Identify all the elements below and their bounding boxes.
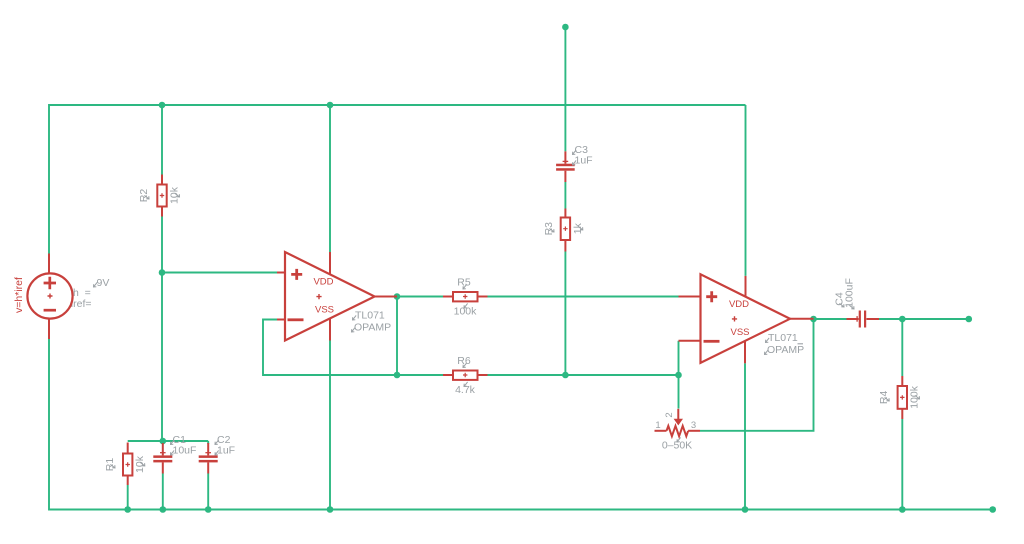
wire U1 output bbox=[397, 296, 443, 298]
wire C2 bottom bbox=[207, 474, 209, 510]
junction C4 / R4 bbox=[899, 316, 906, 323]
node output terminal dot bbox=[966, 316, 973, 323]
svg-text:VDD: VDD bbox=[313, 277, 333, 288]
junction top rail / U1 VDD bbox=[327, 102, 334, 109]
svg-text:v=h*iref: v=h*iref bbox=[13, 277, 25, 313]
capacitor C4 bbox=[847, 311, 880, 328]
wire C1 top stub bbox=[162, 441, 164, 444]
junction bottom rail / R1 bbox=[124, 506, 131, 513]
capacitor C2 bbox=[199, 443, 218, 474]
svg-text:iref=: iref= bbox=[71, 298, 92, 310]
junction U2 output bbox=[810, 316, 817, 323]
voltage source V1 leads and symbols bbox=[44, 254, 56, 340]
svg-text:1uF: 1uF bbox=[217, 445, 235, 457]
svg-text:R6: R6 bbox=[457, 355, 471, 367]
op-amp U2 stray underscore mark bbox=[798, 343, 804, 345]
wire C4 to R4 node bbox=[879, 318, 902, 320]
wire R6 left bbox=[397, 374, 443, 376]
junction bottom rail / U2 VSS bbox=[742, 506, 749, 513]
wire C3-R3 link bbox=[564, 182, 566, 209]
resistor R5 bbox=[443, 292, 488, 301]
svg-text:OPAMP: OPAMP bbox=[767, 344, 804, 356]
wire U1 VDD column bbox=[329, 105, 331, 252]
potentiometer RP1 bbox=[655, 409, 701, 436]
svg-text:TL071: TL071 bbox=[355, 310, 385, 322]
svg-text:3: 3 bbox=[691, 420, 696, 431]
wire bottom rail bbox=[49, 339, 993, 510]
svg-text:10k: 10k bbox=[169, 186, 181, 204]
wire R1 bottom bbox=[127, 485, 129, 510]
junction C1 link bbox=[160, 438, 167, 445]
node C3 top terminal dot bbox=[562, 24, 569, 31]
junction R2 / U1 +input bbox=[159, 269, 166, 276]
svg-text:TL071: TL071 bbox=[768, 332, 798, 344]
junction bottom rail / C1 bbox=[160, 506, 167, 513]
wire U2 -input to pot bbox=[678, 341, 680, 409]
svg-text:R1: R1 bbox=[104, 458, 116, 472]
junction bottom rail / U1 VSS bbox=[327, 506, 334, 513]
wire U2 output bbox=[814, 318, 847, 320]
resistor R2 bbox=[157, 175, 166, 217]
resistor R1 bbox=[123, 443, 132, 486]
junction U1 output bbox=[394, 293, 401, 300]
svg-text:R3: R3 bbox=[543, 222, 555, 236]
svg-text:2: 2 bbox=[664, 412, 675, 417]
resistor R3 bbox=[561, 209, 570, 252]
capacitor C1 bbox=[153, 443, 172, 474]
resistor R4 bbox=[898, 376, 907, 419]
wire R4 top bbox=[901, 319, 903, 376]
wire pot pin3 to output bbox=[700, 319, 814, 431]
wire U2 VDD column bbox=[745, 105, 747, 276]
wire R5 to U2 +input bbox=[488, 296, 679, 298]
wire R6 right bbox=[488, 374, 679, 376]
svg-text:10k: 10k bbox=[134, 455, 146, 473]
op-amp U1 bbox=[277, 252, 397, 341]
resistor R6 bbox=[443, 371, 488, 380]
wire C1-C2 link bbox=[128, 440, 209, 442]
wire opamp U1 +input bbox=[162, 272, 277, 274]
svg-text:R2: R2 bbox=[138, 189, 150, 203]
wire R2 column upper bbox=[161, 105, 163, 175]
svg-text:R4: R4 bbox=[878, 391, 890, 405]
node bottom rail right end dot bbox=[989, 506, 996, 513]
wire R4 bottom bbox=[901, 419, 903, 510]
junction R6 / U2 -input / pot bbox=[675, 372, 682, 379]
wire U1 feedback loop bbox=[263, 320, 397, 376]
capacitor C3 bbox=[556, 151, 575, 182]
wire C1 bottom bbox=[162, 474, 164, 510]
wire R3 bottom column bbox=[564, 252, 566, 376]
op-amp U2 bbox=[679, 274, 814, 363]
junction feedback / R6 bbox=[394, 372, 401, 379]
svg-text:1uF: 1uF bbox=[575, 155, 593, 167]
wire C3 top column bbox=[564, 27, 566, 151]
svg-text:100k: 100k bbox=[454, 306, 478, 318]
svg-text:4.7k: 4.7k bbox=[455, 384, 476, 396]
svg-text:9V: 9V bbox=[97, 277, 110, 289]
svg-text:VDD: VDD bbox=[729, 299, 749, 310]
junction bottom rail / R4 bbox=[899, 506, 906, 513]
voltage source V1 body bbox=[27, 273, 72, 318]
svg-text:R5: R5 bbox=[457, 277, 471, 289]
wire U2 VSS column bbox=[744, 363, 746, 509]
junction R3 / R6 bbox=[562, 372, 569, 379]
svg-text:100k: 100k bbox=[909, 385, 921, 409]
svg-text:VSS: VSS bbox=[730, 327, 749, 338]
wire output terminal bbox=[902, 318, 969, 320]
wire U1 VSS column bbox=[329, 341, 331, 510]
wire C2 top stub bbox=[207, 441, 209, 444]
svg-text:1k: 1k bbox=[572, 222, 584, 234]
svg-text:OPAMP: OPAMP bbox=[354, 322, 391, 334]
svg-text:10uF: 10uF bbox=[173, 445, 197, 457]
wire U1 output to feedback bbox=[396, 297, 398, 376]
wire R2 to node A bbox=[161, 217, 163, 442]
svg-text:VSS: VSS bbox=[315, 305, 334, 316]
junction bottom rail / C2 bbox=[205, 506, 212, 513]
wire top rail bbox=[49, 105, 746, 254]
svg-text:100uF: 100uF bbox=[844, 278, 856, 308]
svg-text:1: 1 bbox=[655, 420, 660, 431]
junction top rail / R2 bbox=[159, 102, 166, 109]
